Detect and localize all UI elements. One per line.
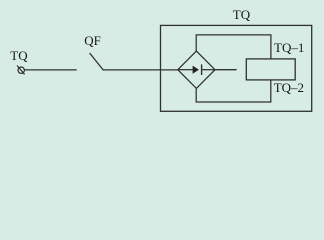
enclosure box TQ (161, 25, 312, 111)
svg-text:QF: QF (84, 33, 101, 48)
wire from bridge bottom to winding TQ-2 (196, 80, 271, 102)
wire from terminal to breaker (24, 69, 76, 71)
winding rectangle TQ-1/TQ-2 (246, 59, 295, 80)
diode cathode line (202, 69, 215, 71)
terminal TQ (circle with slash) (17, 66, 25, 75)
diode inside bridge: anode line (178, 69, 193, 71)
rectifier bridge diamond (178, 51, 215, 88)
breaker QF blade (90, 53, 104, 70)
wire from bridge top to winding TQ-1 (196, 35, 271, 59)
svg-text:TQ–1: TQ–1 (274, 40, 304, 55)
wire from breaker into enclosure to rectifier input (103, 69, 178, 71)
svg-text:TQ: TQ (233, 7, 251, 22)
diode triangle (193, 66, 199, 74)
diode cathode bar (201, 64, 203, 75)
svg-text:TQ–2: TQ–2 (274, 80, 304, 95)
wire from bridge right vertex toward winding (open end) (215, 69, 237, 71)
svg-text:TQ: TQ (10, 48, 28, 63)
